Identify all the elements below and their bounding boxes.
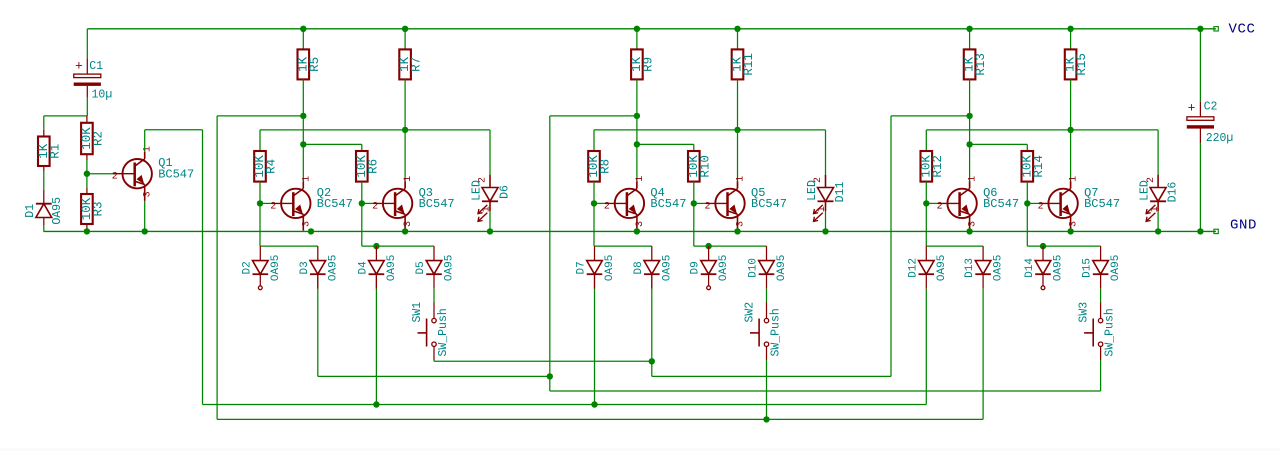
svg-text:OA95: OA95: [661, 255, 673, 281]
svg-text:1: 1: [1150, 206, 1161, 212]
svg-text:R9: R9: [641, 57, 655, 72]
svg-text:2: 2: [270, 201, 276, 212]
svg-text:OA95: OA95: [604, 255, 616, 281]
svg-text:SW3: SW3: [1078, 302, 1091, 323]
svg-text:2: 2: [813, 177, 824, 183]
svg-text:BC547: BC547: [983, 197, 1019, 211]
svg-text:D7: D7: [576, 261, 588, 274]
svg-text:R8: R8: [599, 159, 613, 174]
svg-text:1: 1: [301, 176, 312, 182]
svg-text:OA95: OA95: [270, 255, 282, 281]
svg-text:OA95: OA95: [1053, 255, 1065, 281]
svg-text:1: 1: [635, 176, 646, 182]
svg-text:R6: R6: [366, 159, 380, 174]
svg-text:D15: D15: [1082, 258, 1094, 278]
svg-text:SW_Push: SW_Push: [1104, 308, 1117, 356]
svg-text:R2: R2: [91, 131, 105, 146]
svg-text:SW1: SW1: [411, 302, 424, 323]
svg-text:2: 2: [112, 172, 118, 183]
svg-text:2: 2: [604, 201, 610, 212]
svg-text:1: 1: [403, 176, 414, 182]
svg-text:R11: R11: [742, 53, 756, 76]
svg-text:3: 3: [968, 221, 979, 227]
svg-text:OA95: OA95: [386, 255, 398, 281]
svg-text:3: 3: [736, 221, 747, 227]
svg-text:220µ: 220µ: [1206, 132, 1234, 145]
svg-text:1: 1: [968, 176, 979, 182]
svg-text:OA95: OA95: [993, 255, 1005, 281]
svg-text:2: 2: [704, 201, 710, 212]
svg-text:3: 3: [403, 221, 414, 227]
svg-text:OA95: OA95: [1110, 255, 1122, 281]
svg-text:D10: D10: [748, 258, 760, 278]
svg-text:D4: D4: [357, 261, 369, 275]
svg-text:D8: D8: [633, 261, 645, 274]
svg-text:3: 3: [143, 191, 154, 197]
svg-text:OA95: OA95: [776, 255, 788, 281]
svg-text:BC547: BC547: [317, 197, 353, 211]
svg-text:+: +: [75, 59, 83, 74]
svg-text:1: 1: [736, 176, 747, 182]
svg-text:D2: D2: [241, 261, 253, 274]
svg-text:D14: D14: [1024, 258, 1036, 278]
svg-text:C1: C1: [89, 60, 103, 73]
svg-text:1: 1: [817, 206, 828, 212]
svg-text:2: 2: [478, 177, 489, 183]
svg-text:D6: D6: [499, 185, 512, 199]
svg-text:BC547: BC547: [419, 197, 455, 211]
svg-text:R13: R13: [974, 53, 988, 76]
svg-text:SW_Push: SW_Push: [770, 308, 783, 356]
svg-text:OA95: OA95: [936, 255, 948, 281]
svg-text:R4: R4: [265, 159, 279, 174]
svg-text:3: 3: [301, 221, 312, 227]
svg-text:D11: D11: [834, 182, 847, 203]
svg-text:SW_Push: SW_Push: [437, 308, 450, 356]
svg-text:D3: D3: [299, 261, 311, 274]
svg-text:OA95: OA95: [51, 197, 64, 225]
svg-text:D1: D1: [24, 204, 37, 218]
svg-text:R15: R15: [1075, 53, 1089, 76]
svg-text:3: 3: [635, 221, 646, 227]
svg-text:D16: D16: [1167, 182, 1180, 203]
svg-text:D13: D13: [964, 258, 976, 278]
svg-text:D5: D5: [415, 261, 427, 274]
svg-text:BC547: BC547: [650, 197, 686, 211]
svg-text:2: 2: [1146, 177, 1157, 183]
svg-text:D9: D9: [690, 261, 702, 274]
svg-text:2: 2: [372, 201, 378, 212]
svg-text:R14: R14: [1032, 155, 1046, 178]
svg-text:R7: R7: [410, 57, 424, 72]
svg-text:OA95: OA95: [718, 255, 730, 281]
svg-text:BC547: BC547: [1084, 197, 1120, 211]
svg-text:2: 2: [937, 201, 943, 212]
svg-text:R10: R10: [698, 155, 712, 178]
svg-text:D12: D12: [907, 258, 919, 278]
svg-text:R3: R3: [91, 201, 105, 216]
svg-text:R12: R12: [931, 155, 945, 178]
svg-text:VCC: VCC: [1228, 21, 1255, 37]
svg-text:SW2: SW2: [744, 302, 757, 323]
svg-text:3: 3: [1069, 221, 1080, 227]
svg-text:BC547: BC547: [158, 167, 194, 181]
svg-text:C2: C2: [1204, 101, 1218, 114]
svg-text:10µ: 10µ: [92, 88, 113, 101]
svg-text:OA95: OA95: [444, 255, 456, 281]
svg-text:1: 1: [1069, 176, 1080, 182]
svg-text:1: 1: [482, 206, 493, 212]
svg-text:OA95: OA95: [327, 255, 339, 281]
svg-text:+: +: [1188, 101, 1196, 116]
svg-text:GND: GND: [1230, 217, 1257, 233]
svg-text:BC547: BC547: [751, 197, 787, 211]
svg-text:R1: R1: [48, 144, 62, 159]
svg-text:R5: R5: [308, 57, 322, 72]
svg-text:2: 2: [1038, 201, 1044, 212]
